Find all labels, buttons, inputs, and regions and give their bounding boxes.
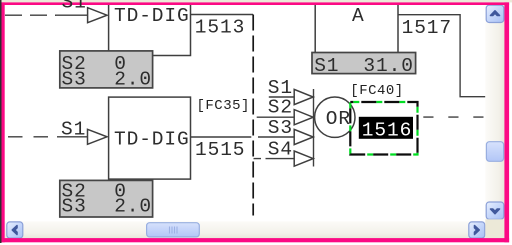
svg-text:S1: S1 <box>61 118 86 140</box>
svg-text:1515: 1515 <box>195 139 245 161</box>
svg-text:A: A <box>352 5 365 27</box>
svg-text:TD-DIG: TD-DIG <box>114 129 190 151</box>
svg-text:S3: S3 <box>268 117 293 139</box>
svg-text:S1: S1 <box>62 0 87 14</box>
svg-text:2.0: 2.0 <box>114 68 152 90</box>
svg-text:S2: S2 <box>268 97 293 119</box>
svg-text:S4: S4 <box>268 139 293 161</box>
svg-text:31.0: 31.0 <box>363 55 413 77</box>
svg-text:S1: S1 <box>314 55 339 77</box>
svg-text:1517: 1517 <box>402 17 452 39</box>
svg-text:S3: S3 <box>62 196 87 218</box>
svg-text:2.0: 2.0 <box>114 196 152 218</box>
svg-text:[FC35]: [FC35] <box>197 98 250 114</box>
svg-text:1516: 1516 <box>362 119 412 141</box>
svg-text:TD-DIG: TD-DIG <box>114 5 190 27</box>
svg-text:[FC40]: [FC40] <box>350 83 403 99</box>
svg-text:S3: S3 <box>62 68 87 90</box>
svg-text:1513: 1513 <box>195 17 245 39</box>
svg-text:OR: OR <box>326 108 351 130</box>
